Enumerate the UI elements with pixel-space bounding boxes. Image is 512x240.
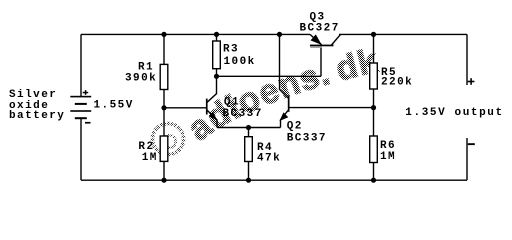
wire R3 bottom lead bbox=[216, 69, 218, 77]
transistor Q1 base bar bbox=[206, 99, 208, 115]
wire R5 top lead bbox=[373, 34, 375, 63]
resistor R5 body bbox=[370, 63, 378, 89]
wire R1 top lead bbox=[163, 34, 165, 64]
svg-text:BC337: BC337 bbox=[287, 132, 327, 144]
svg-text:1.55V: 1.55V bbox=[94, 99, 134, 111]
svg-text:BC337: BC337 bbox=[223, 108, 263, 120]
node Q2 collector top bbox=[277, 32, 282, 37]
output plus terminal sign bbox=[468, 78, 475, 85]
svg-text:1M: 1M bbox=[142, 152, 158, 164]
wire Q2 base bbox=[289, 107, 374, 109]
battery minus sign bbox=[85, 122, 91, 124]
wire R1 bottom lead bbox=[163, 90, 165, 108]
wire Q3 base lead bbox=[320, 45, 322, 76]
resistor R1 body bbox=[160, 64, 168, 89]
wire Q3 emitter diagonal bbox=[310, 34, 322, 45]
node R4 top bbox=[246, 125, 251, 130]
svg-text:220k: 220k bbox=[381, 77, 413, 89]
wire Q2 emitter bbox=[281, 110, 289, 127]
svg-text:1.35V output: 1.35V output bbox=[405, 107, 503, 119]
resistor R6 body bbox=[370, 136, 378, 163]
resistor R3 body bbox=[213, 41, 221, 69]
wire bottom rail bbox=[81, 179, 467, 181]
node R5 top bbox=[371, 32, 376, 37]
battery plus sign bbox=[83, 90, 89, 95]
wire Q2 collector bbox=[280, 34, 289, 98]
node R2 bottom bbox=[161, 178, 166, 183]
transistor Q1 emitter arrow bbox=[209, 112, 217, 121]
wire left rail upper bbox=[80, 34, 82, 96]
output minus terminal sign bbox=[468, 143, 475, 145]
svg-text:R3: R3 bbox=[223, 44, 239, 56]
node R3 bottom bbox=[214, 74, 219, 79]
wire left rail lower bbox=[80, 118, 82, 180]
node R1-R2-Q1 base bbox=[161, 105, 166, 110]
transistor Q2 base bar bbox=[288, 95, 290, 111]
resistor R4 body bbox=[245, 137, 253, 162]
svg-text:390k: 390k bbox=[125, 73, 157, 85]
svg-text:47k: 47k bbox=[257, 152, 281, 164]
wire R4 bottom lead bbox=[248, 162, 250, 181]
wire Q1 emitter bbox=[207, 110, 217, 127]
wire Q3 collector diagonal bbox=[332, 34, 341, 45]
wire R6 top lead bbox=[373, 108, 375, 136]
wire node R3-Q3 base bbox=[217, 75, 322, 77]
node R3 top bbox=[214, 32, 219, 37]
wire R2 bottom lead bbox=[163, 161, 165, 180]
resistor R2 body bbox=[160, 136, 168, 161]
node R1 top bbox=[161, 32, 166, 37]
wire Q1 collector bbox=[207, 76, 216, 102]
svg-text:100k: 100k bbox=[224, 56, 256, 68]
node R4 bottom bbox=[246, 178, 251, 183]
wire R2 top lead bbox=[163, 108, 165, 136]
wire Q1 base bbox=[164, 107, 206, 109]
transistor Q3 base bar bbox=[310, 45, 334, 47]
svg-text:Q2: Q2 bbox=[287, 121, 303, 133]
transistor Q3 bar gray shade bbox=[310, 46, 322, 48]
wire right rail lower bbox=[466, 138, 468, 180]
wire R5 bottom lead bbox=[373, 89, 375, 108]
svg-text:1M: 1M bbox=[380, 151, 396, 163]
wire top rail left bbox=[81, 33, 310, 35]
wire R6 bottom lead bbox=[373, 163, 375, 181]
svg-text:battery: battery bbox=[9, 110, 65, 122]
transistor Q2 emitter arrow bbox=[279, 112, 288, 121]
wire emitter rail Q1-Q2 bbox=[217, 127, 281, 129]
battery B1 plates bbox=[70, 96, 91, 119]
svg-text:BC327: BC327 bbox=[300, 23, 340, 35]
transistor Q3 emitter arrow (PNP, points into base) bbox=[311, 34, 322, 45]
wire R4 top lead bbox=[248, 128, 250, 137]
wire right rail upper bbox=[466, 34, 468, 85]
node R6 bottom bbox=[371, 178, 376, 183]
wire top rail right bbox=[339, 33, 467, 35]
watermark text adioens.dk bbox=[199, 70, 384, 142]
wire R3 top lead bbox=[216, 34, 218, 41]
node R5-R6-Q2 base bbox=[371, 105, 376, 110]
watermark copyright circle bbox=[153, 124, 184, 155]
